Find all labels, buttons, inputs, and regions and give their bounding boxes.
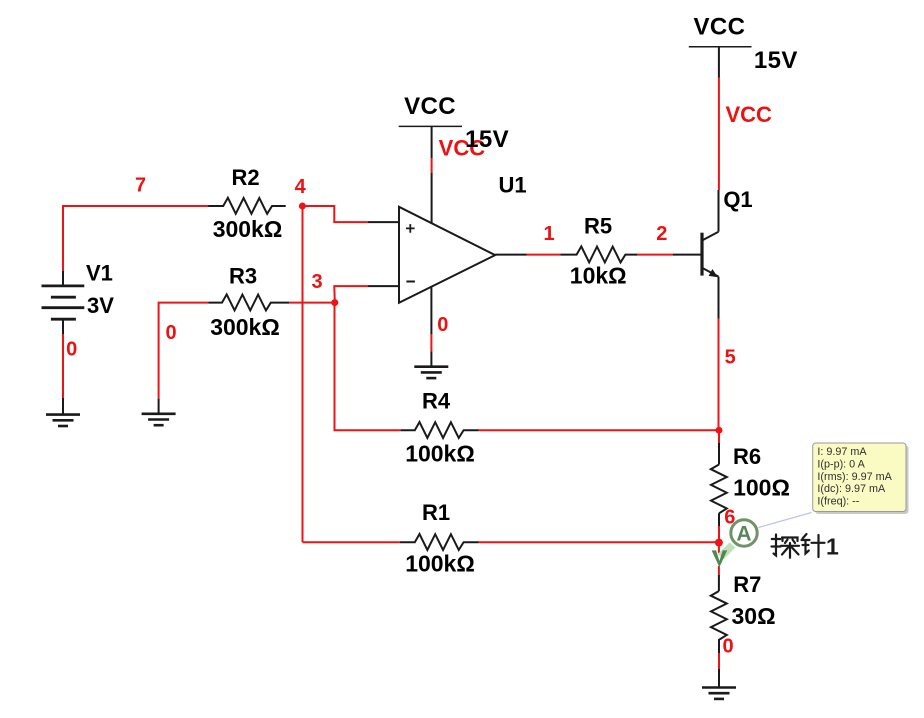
wire node6 down through probe xyxy=(718,543,720,553)
wire Q1 emitter to node 5 xyxy=(718,277,720,319)
svg-text:I: 9.97 mA: I: 9.97 mA xyxy=(817,446,867,458)
wire R4 right to node5 junction xyxy=(479,429,720,431)
wire node5 to R6 xyxy=(718,430,720,443)
probe circle A xyxy=(731,520,757,546)
svg-text:I(dc): 9.97 mA: I(dc): 9.97 mA xyxy=(817,483,886,495)
node 4 junction dot xyxy=(299,203,306,210)
svg-text:V1: V1 xyxy=(86,261,113,286)
svg-text:15V: 15V xyxy=(754,47,798,74)
op-amp ground pin wire xyxy=(430,286,432,334)
node 6 junction dot xyxy=(715,539,723,547)
transistor Q1 xyxy=(702,232,719,277)
wire net0: R3 left to ground xyxy=(159,303,209,399)
op-amp output wire to node 1 xyxy=(495,254,526,256)
svg-text:Q1: Q1 xyxy=(723,187,752,212)
svg-text:I(rms): 9.97 mA: I(rms): 9.97 mA xyxy=(817,471,892,483)
svg-text:0: 0 xyxy=(437,314,448,336)
resistor R5 xyxy=(560,246,637,262)
resistor R2 xyxy=(208,198,286,214)
svg-text:30Ω: 30Ω xyxy=(731,603,775,629)
svg-text:A: A xyxy=(736,523,751,546)
battery V1 xyxy=(42,286,85,319)
wire R3 right to node 3 xyxy=(289,302,335,304)
wire node4 row to R1 left xyxy=(303,541,400,543)
wire node4 vertical to R1 row xyxy=(302,206,304,542)
op-amp minus sign xyxy=(406,281,415,283)
svg-text:R5: R5 xyxy=(584,214,612,239)
svg-text:0: 0 xyxy=(723,636,734,658)
probe info box xyxy=(813,443,906,512)
svg-text:4: 4 xyxy=(295,176,307,198)
wire node2 R5 to Q1 base xyxy=(637,254,673,256)
svg-text:VCC: VCC xyxy=(693,14,745,41)
wire Q1 collector up xyxy=(718,190,720,232)
probe name tanzhen glyph 2 (CJK zhen) xyxy=(802,534,825,557)
svg-text:3: 3 xyxy=(311,271,322,293)
VCC bar top right xyxy=(689,46,752,48)
svg-text:R7: R7 xyxy=(733,572,761,597)
svg-text:VCC: VCC xyxy=(725,102,772,127)
wire battery top stub xyxy=(62,271,64,286)
svg-text:100kΩ: 100kΩ xyxy=(405,441,475,467)
node 5 junction dot xyxy=(716,427,723,434)
svg-text:I(freq): --: I(freq): -- xyxy=(817,495,859,507)
svg-text:7: 7 xyxy=(135,175,146,197)
resistor R3 xyxy=(208,294,289,310)
svg-text:1: 1 xyxy=(826,534,839,560)
ground under battery xyxy=(46,415,80,426)
svg-text:300kΩ: 300kΩ xyxy=(210,314,280,340)
svg-text:VCC: VCC xyxy=(404,93,456,120)
wire R1 right to node 6 junction xyxy=(479,541,719,543)
ground under R7 xyxy=(702,688,736,699)
svg-text:3V: 3V xyxy=(87,293,114,318)
svg-text:0: 0 xyxy=(165,322,176,344)
svg-text:R3: R3 xyxy=(229,264,257,289)
svg-text:R4: R4 xyxy=(422,389,451,414)
svg-text:1: 1 xyxy=(543,223,554,245)
wire node3 vertical to R4 row xyxy=(335,303,401,431)
svg-text:15V: 15V xyxy=(465,126,509,153)
wire R7 to ground xyxy=(718,653,720,669)
wire R6 bottom to node 6 xyxy=(718,526,720,543)
VCC bar above op-amp xyxy=(399,125,462,127)
svg-text:I(p-p): 0 A: I(p-p): 0 A xyxy=(817,459,865,471)
ground under op-amp xyxy=(414,367,448,378)
Q1 emitter arrow head xyxy=(709,269,718,277)
resistor R1 xyxy=(400,534,479,550)
resistor R6 xyxy=(711,465,727,527)
svg-text:R6: R6 xyxy=(733,444,761,469)
probe arrow head xyxy=(712,550,728,567)
resistor R7 xyxy=(711,591,727,653)
svg-text:5: 5 xyxy=(725,347,736,369)
wire node4 to op-amp plus input xyxy=(302,206,367,222)
probe connector line to info box xyxy=(759,513,812,528)
svg-text:0: 0 xyxy=(66,339,77,361)
probe arrow light band xyxy=(718,543,736,560)
probe info box shadow xyxy=(815,446,908,515)
svg-text:R1: R1 xyxy=(422,500,450,525)
op-amp plus sign xyxy=(406,224,415,233)
wire VCC net to Q1 collector xyxy=(718,78,720,191)
op-amp U1 triangle xyxy=(399,207,495,303)
probe name tanzhen glyph 1 (CJK tan) xyxy=(772,535,800,558)
wire net7: battery plus to R2 left xyxy=(63,206,208,271)
svg-text:R2: R2 xyxy=(231,165,259,190)
ground under R3 wire xyxy=(142,414,176,425)
svg-text:100kΩ: 100kΩ xyxy=(405,551,475,577)
svg-text:2: 2 xyxy=(656,223,667,245)
wire battery minus to ground net 0 xyxy=(62,319,64,334)
wire node3 to op-amp minus input xyxy=(334,286,368,303)
svg-text:U1: U1 xyxy=(498,173,526,198)
svg-text:300kΩ: 300kΩ xyxy=(213,216,283,242)
node 3 junction dot xyxy=(331,299,338,306)
svg-text:100Ω: 100Ω xyxy=(733,475,790,501)
svg-text:10kΩ: 10kΩ xyxy=(570,263,627,289)
resistor R4 xyxy=(401,422,479,438)
op-amp VCC pin wire xyxy=(431,126,433,158)
